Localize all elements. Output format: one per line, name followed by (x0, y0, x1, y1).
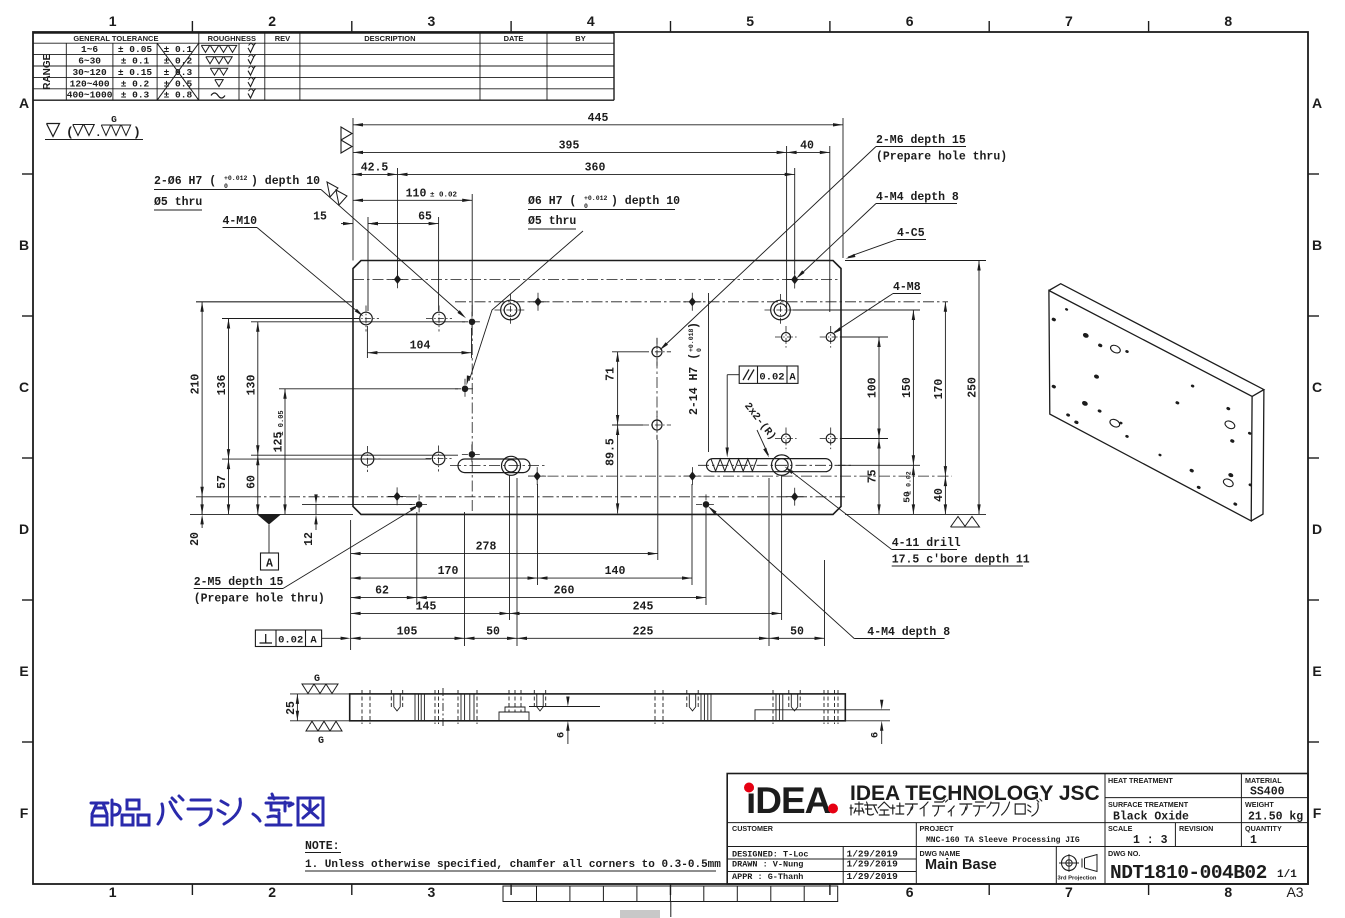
counterbore holes top (501, 300, 521, 320)
svg-text:): ) (688, 322, 701, 329)
svg-text:150: 150 (901, 377, 914, 398)
svg-text:71: 71 (605, 367, 618, 381)
svg-text:1: 1 (109, 13, 117, 29)
surface triangles below bottom-right edge (951, 517, 966, 528)
section left 6 dim (529, 706, 600, 708)
svg-text:+0.012: +0.012 (224, 175, 248, 182)
svg-text:GENERAL TOLERANCE: GENERAL TOLERANCE (73, 34, 158, 43)
svg-text:0: 0 (696, 348, 703, 352)
dim 130 (257, 322, 259, 455)
svg-text:Main Base: Main Base (925, 857, 997, 873)
svg-text:0: 0 (584, 203, 588, 210)
vertical centerline x=657 (656, 338, 658, 440)
svg-text:62: 62 (375, 585, 389, 598)
dim 20 (arrows outside) (201, 497, 203, 515)
left slot with counterbore (458, 459, 530, 473)
svg-text:104: 104 (410, 340, 431, 353)
svg-text:105: 105 (397, 625, 418, 638)
dim 57 (228, 459, 230, 514)
4-M4 / 4-M8 holes right (782, 333, 791, 342)
svg-text:260: 260 (554, 585, 575, 598)
svg-text:8: 8 (1224, 13, 1232, 29)
section 25 dim (290, 693, 349, 695)
svg-text:40: 40 (800, 139, 814, 152)
svg-text:iDEA: iDEA (746, 780, 831, 821)
dim 89.5 (617, 425, 619, 513)
slot centerlines (450, 465, 545, 467)
svg-text:G: G (314, 674, 320, 685)
svg-text:4-11 drill: 4-11 drill (892, 537, 961, 550)
svg-text:12: 12 (303, 532, 316, 546)
svg-text:65: 65 (418, 211, 432, 224)
svg-text:± 0.2: ± 0.2 (121, 78, 150, 89)
svg-text:89.5: 89.5 (605, 438, 618, 466)
small center tick below (670, 902, 672, 918)
svg-text:G: G (318, 736, 324, 747)
svg-text:400~1000: 400~1000 (67, 90, 113, 101)
svg-text:2-Ø6 H7 (: 2-Ø6 H7 ( (154, 175, 216, 188)
isometric view plate (1049, 291, 1252, 521)
svg-text:± 0.8: ± 0.8 (164, 90, 193, 101)
svg-text:BY: BY (575, 34, 585, 43)
datum A symbol (257, 514, 281, 524)
svg-text:C: C (19, 379, 29, 395)
svg-text:± 0.05: ± 0.05 (118, 44, 153, 55)
dim 50 +-0.02 right (912, 465, 914, 514)
svg-text:1/1: 1/1 (1277, 869, 1297, 881)
svg-text:± 0.05: ± 0.05 (278, 410, 286, 435)
dim 210 (201, 302, 203, 515)
svg-text:+0.018: +0.018 (688, 328, 695, 352)
roughness triangle symbols (201, 45, 209, 52)
svg-text:145: 145 (416, 600, 437, 613)
svg-text:2: 2 (268, 13, 276, 29)
svg-text:0.02: 0.02 (759, 372, 784, 384)
svg-text:4-M4 depth 8: 4-M4 depth 8 (876, 191, 959, 204)
svg-text:PROJECT: PROJECT (920, 824, 955, 833)
svg-text:A: A (19, 95, 29, 111)
svg-text:136: 136 (216, 375, 229, 396)
svg-text:) depth 10: ) depth 10 (611, 195, 680, 208)
svg-text:APPR : G-Thanh: APPR : G-Thanh (732, 872, 803, 882)
svg-text:DWG NO.: DWG NO. (1108, 849, 1140, 858)
dowel point holes (filled) (469, 319, 476, 326)
svg-text:6~30: 6~30 (78, 56, 101, 67)
svg-text:60: 60 (245, 475, 258, 489)
svg-text:± 0.02: ± 0.02 (906, 471, 913, 495)
svg-text:CUSTOMER: CUSTOMER (732, 824, 774, 833)
X cross over last tolerance column (157, 43, 199, 100)
svg-text:30~120: 30~120 (72, 67, 107, 78)
bottom dim extension lines (350, 520, 352, 650)
dim 250 (978, 261, 980, 515)
svg-text:6: 6 (906, 884, 914, 900)
svg-text:DRAWN : V-Nung: DRAWN : V-Nung (732, 860, 803, 870)
3rd projection symbol (1062, 856, 1077, 871)
dim 140 (538, 577, 693, 579)
svg-text:278: 278 (476, 541, 497, 554)
svg-text:A: A (266, 558, 273, 571)
svg-text:SS400: SS400 (1250, 786, 1285, 799)
svg-text:.: . (95, 128, 102, 140)
svg-text:210: 210 (190, 374, 203, 395)
scale strip below frame (503, 886, 838, 902)
svg-text:110: 110 (406, 188, 427, 201)
svg-text:170: 170 (438, 565, 459, 578)
svg-text:42.5: 42.5 (361, 161, 389, 174)
zone ticks left/right (22, 173, 33, 175)
svg-text:2-M6 depth 15: 2-M6 depth 15 (876, 134, 966, 147)
svg-text:± 0.3: ± 0.3 (121, 90, 150, 101)
svg-text:4-M10: 4-M10 (223, 215, 258, 228)
svg-text:4-M4 depth 8: 4-M4 depth 8 (867, 626, 950, 639)
dim 445 (353, 124, 843, 126)
svg-text:± 0.5: ± 0.5 (164, 78, 193, 89)
svg-text:1/29/2019: 1/29/2019 (847, 871, 899, 882)
svg-text:50: 50 (486, 625, 500, 638)
svg-text:6: 6 (870, 732, 882, 738)
svg-text:D: D (19, 521, 29, 537)
svg-text:445: 445 (588, 112, 609, 125)
dim 245 (510, 612, 782, 614)
svg-text:395: 395 (559, 139, 580, 152)
right dim extension lines (840, 336, 888, 338)
svg-text:SURFACE TREATMENT: SURFACE TREATMENT (1108, 800, 1189, 809)
section right 6 dim (846, 720, 890, 722)
svg-text:7: 7 (1065, 884, 1073, 900)
top dim extension lines (352, 118, 354, 261)
dim 170 bottom (351, 577, 538, 579)
svg-text:F: F (20, 805, 29, 821)
svg-text:3: 3 (428, 13, 436, 29)
svg-text:100: 100 (867, 377, 880, 398)
dim 105 (351, 637, 465, 639)
dim 125 +-0.05 (284, 389, 286, 515)
svg-text:140: 140 (605, 565, 626, 578)
dim 360 (398, 173, 795, 175)
dim 110 +-0.02 (353, 199, 472, 201)
svg-text:17.5 c'bore depth 11: 17.5 c'bore depth 11 (892, 554, 1030, 567)
datum flag on left extension line (341, 127, 352, 153)
centerline row y=302 (455, 301, 948, 303)
svg-text:Ø6 H7 (: Ø6 H7 ( (528, 195, 576, 208)
right slot with counterbore and serration (707, 459, 832, 472)
svg-text:± 0.1: ± 0.1 (121, 56, 150, 67)
dim 12 (arrows outside) (315, 504, 317, 514)
svg-text:1~6: 1~6 (81, 44, 98, 55)
svg-text:4-M8: 4-M8 (893, 281, 921, 294)
svg-text:REV: REV (275, 34, 290, 43)
svg-text:NOTE:: NOTE: (305, 840, 340, 853)
centerline row y=497 (250, 496, 845, 498)
svg-text:2-14 H7 (: 2-14 H7 ( (688, 353, 701, 415)
svg-text:B: B (1312, 237, 1322, 253)
dim 50b (769, 637, 825, 639)
blue annotation 部品バラシ、製図 (stroke approximation) (91, 794, 323, 825)
section view outline (350, 694, 846, 721)
svg-text:F: F (1313, 805, 1322, 821)
svg-text:2-M5 depth 15: 2-M5 depth 15 (194, 576, 284, 589)
svg-text:1/29/2019: 1/29/2019 (847, 859, 899, 870)
svg-text:Ø5 thru: Ø5 thru (528, 215, 576, 228)
svg-text:1: 1 (109, 884, 117, 900)
tolerance table (33, 32, 614, 34)
svg-text:120~400: 120~400 (70, 78, 110, 89)
iso ring holes (1109, 344, 1121, 355)
svg-text:3rd Projection: 3rd Projection (1058, 876, 1097, 882)
svg-text:E: E (1312, 663, 1321, 679)
centerline row y=476 (528, 475, 952, 477)
dim 145 (351, 612, 510, 614)
finish flag on leader (327, 182, 347, 205)
svg-text:6: 6 (556, 732, 568, 738)
svg-text:130: 130 (245, 375, 258, 396)
svg-text:21.50 kg: 21.50 kg (1248, 811, 1303, 824)
dim 100 (878, 337, 880, 439)
svg-text:B: B (19, 237, 29, 253)
svg-text:SCALE: SCALE (1108, 824, 1133, 833)
dim 71 (612, 351, 643, 353)
svg-text:DESCRIPTION: DESCRIPTION (364, 34, 415, 43)
svg-text:REVISION: REVISION (1179, 824, 1213, 833)
svg-text:15: 15 (313, 211, 327, 224)
svg-text:0.02: 0.02 (278, 635, 303, 647)
svg-text:3: 3 (428, 884, 436, 900)
surface finish note (47, 124, 60, 137)
svg-text:20: 20 (189, 532, 202, 546)
svg-text:225: 225 (633, 625, 654, 638)
svg-text:57: 57 (216, 475, 229, 489)
svg-text:+0.012: +0.012 (584, 195, 608, 202)
svg-text:360: 360 (585, 161, 606, 174)
svg-text:8: 8 (1224, 884, 1232, 900)
svg-text:C: C (1312, 379, 1322, 395)
svg-text:G: G (111, 114, 117, 125)
plate outline with chamfered corners (353, 261, 841, 515)
company japanese 株式会社アイディアテクノロジ (approx strokes) (850, 799, 1042, 816)
svg-text:± 0.15: ± 0.15 (118, 67, 153, 78)
dim 170 (944, 302, 946, 476)
svg-text:25: 25 (285, 701, 298, 715)
svg-text:170: 170 (933, 379, 946, 400)
svg-text:4: 4 (587, 13, 595, 29)
svg-text:(Prepare hole thru): (Prepare hole thru) (876, 151, 1007, 164)
svg-text:A: A (310, 635, 317, 647)
svg-text:MATERIAL: MATERIAL (1245, 776, 1282, 785)
svg-text:1: 1 (1250, 834, 1257, 847)
dim 260 (417, 597, 706, 599)
centerline row y=279 (353, 278, 838, 280)
dim 278 (351, 553, 658, 555)
svg-text:1 : 3: 1 : 3 (1133, 834, 1168, 847)
vertical line x=708.5 (708, 293, 710, 452)
svg-text:Ø5 thru: Ø5 thru (154, 196, 202, 209)
svg-text:75: 75 (867, 469, 880, 483)
dim 62 (351, 597, 417, 599)
left dim extension lines (196, 301, 352, 303)
svg-text:(Prepare hole thru): (Prepare hole thru) (194, 593, 325, 606)
svg-text:NDT1810-004B02: NDT1810-004B02 (1110, 862, 1267, 884)
svg-text:± 0.02: ± 0.02 (430, 192, 458, 200)
svg-text:6: 6 (906, 13, 914, 29)
section internal features (361, 690, 363, 724)
reference diamonds (394, 275, 401, 284)
vertical centerline x=472 (471, 305, 473, 512)
svg-text:0: 0 (224, 183, 228, 190)
svg-text:IDEA TECHNOLOGY JSC: IDEA TECHNOLOGY JSC (850, 782, 1100, 805)
svg-text:7: 7 (1065, 13, 1073, 29)
svg-text:RANGE: RANGE (42, 53, 53, 89)
svg-text:1. Unless otherwise specified,: 1. Unless otherwise specified, chamfer a… (305, 859, 721, 871)
dim 104 (366, 326, 368, 358)
zone ticks top/bottom (191, 21, 193, 32)
dim 50a (465, 637, 518, 639)
dim 225 (517, 637, 769, 639)
svg-text:250: 250 (967, 377, 980, 398)
svg-text:ROUGHNESS: ROUGHNESS (208, 34, 256, 43)
dim 42.5 (352, 173, 398, 175)
svg-text:) depth 10: ) depth 10 (251, 175, 320, 188)
4-M10 tapped holes (360, 312, 373, 325)
dim 136 (228, 319, 230, 460)
dim 65 (368, 223, 439, 225)
svg-text:245: 245 (633, 600, 654, 613)
svg-text:DATE: DATE (504, 34, 524, 43)
svg-text:5: 5 (746, 13, 754, 29)
label 2-14 H7 rotated (688, 322, 703, 415)
2-14 H7 holes (652, 347, 662, 357)
svg-text:D: D (1312, 521, 1322, 537)
dim 15 (arrows outside) (343, 222, 353, 225)
svg-text:): ) (133, 125, 141, 140)
dim 150 (912, 310, 914, 465)
dim 40 (787, 151, 830, 153)
svg-text:40: 40 (933, 488, 946, 502)
perpendicularity frame (255, 630, 321, 647)
svg-text:(: ( (66, 125, 74, 140)
svg-text:DESIGNED: T-Loc: DESIGNED: T-Loc (732, 850, 809, 860)
dim 40 right (944, 476, 946, 514)
dim 75 (878, 439, 880, 515)
svg-text:A3: A3 (1286, 884, 1303, 900)
svg-text:A: A (789, 372, 796, 384)
svg-text:50: 50 (790, 625, 804, 638)
svg-text:QUANTITY: QUANTITY (1245, 824, 1282, 833)
title block (727, 774, 1308, 885)
svg-text:Black Oxide: Black Oxide (1113, 811, 1189, 824)
dim 395 (353, 151, 787, 153)
svg-text:2: 2 (268, 884, 276, 900)
svg-text:± 0.1: ± 0.1 (164, 44, 193, 55)
svg-text:WEIGHT: WEIGHT (1245, 800, 1274, 809)
roughness check symbols (248, 44, 255, 53)
svg-text:HEAT TREATMENT: HEAT TREATMENT (1108, 776, 1173, 785)
dim 60 (257, 455, 259, 514)
svg-text:4-C5: 4-C5 (897, 227, 925, 240)
iso holes (1065, 308, 1069, 312)
parallelism frame (739, 366, 798, 383)
svg-text:A: A (1312, 95, 1322, 111)
svg-text:E: E (19, 663, 28, 679)
svg-text:MNC-160 TA Sleeve Processing J: MNC-160 TA Sleeve Processing JIG (926, 836, 1080, 845)
